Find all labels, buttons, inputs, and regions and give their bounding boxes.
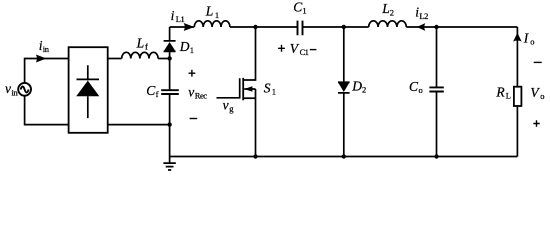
svg-text:v: v <box>223 98 229 113</box>
label vRec minus <box>190 118 198 120</box>
label Vo <box>530 85 544 101</box>
wire <box>25 59 69 125</box>
svg-text:I: I <box>523 30 530 45</box>
node Cf-bottom <box>167 122 171 126</box>
svg-text:f: f <box>156 89 159 99</box>
label C1 <box>293 0 306 16</box>
svg-text:in: in <box>43 44 50 54</box>
bottom rail wire <box>170 156 518 158</box>
label Vo plus <box>533 120 539 126</box>
label L1 <box>205 4 219 20</box>
label vin <box>5 81 18 97</box>
arrow iin <box>36 55 47 63</box>
capacitor Co <box>429 27 443 157</box>
label Cf <box>146 83 158 99</box>
svg-text:2: 2 <box>390 7 394 17</box>
right wire <box>516 27 518 157</box>
label S1 <box>264 81 276 97</box>
label RL <box>495 84 511 100</box>
svg-text:v: v <box>188 85 194 100</box>
svg-text:D: D <box>179 39 190 54</box>
resistor RL <box>514 87 522 106</box>
inductor L2 <box>369 21 407 27</box>
svg-text:2: 2 <box>362 85 366 95</box>
wire <box>108 125 170 157</box>
svg-text:v: v <box>5 81 11 96</box>
node Co-bottom <box>434 154 438 158</box>
svg-text:i: i <box>171 8 175 23</box>
diode D2 <box>338 27 350 157</box>
node Lf-D1-Cf <box>167 56 171 60</box>
label iin <box>39 38 50 54</box>
label Io <box>523 30 535 46</box>
label vRec plus <box>189 70 196 77</box>
diode D1 <box>164 27 176 58</box>
top rail wire <box>170 26 518 28</box>
label D2 <box>351 79 366 95</box>
svg-text:1: 1 <box>302 6 306 16</box>
svg-text:C1: C1 <box>300 47 309 57</box>
svg-text:R: R <box>495 84 505 99</box>
svg-text:L: L <box>506 90 511 100</box>
source Vin <box>18 83 31 96</box>
arrow iL1 <box>184 23 195 31</box>
capacitor Cf <box>161 58 179 124</box>
svg-text:o: o <box>530 36 534 46</box>
label VC1 minus <box>310 49 317 51</box>
label L2 <box>381 1 394 17</box>
svg-text:g: g <box>229 103 234 113</box>
svg-text:f: f <box>145 41 148 51</box>
label Vo minus <box>534 61 542 63</box>
label Co <box>409 79 423 95</box>
label VC1 plus <box>278 45 285 52</box>
svg-text:L2: L2 <box>419 11 428 21</box>
label iL2 <box>415 5 428 21</box>
svg-text:L1: L1 <box>176 14 185 24</box>
label VC1 <box>290 41 309 57</box>
svg-text:o: o <box>419 85 423 95</box>
bridge rectifier <box>69 47 108 133</box>
label D1 <box>179 39 194 55</box>
svg-text:L: L <box>205 4 214 19</box>
label iL1 <box>171 8 185 24</box>
svg-text:L: L <box>136 35 145 50</box>
node L2-Co <box>434 25 438 29</box>
wire <box>158 58 170 60</box>
arrow Io <box>513 33 522 42</box>
MOSFET S1 <box>217 27 256 157</box>
inductor L1 <box>194 21 230 27</box>
svg-text:L: L <box>381 1 390 16</box>
svg-text:Rec: Rec <box>195 91 207 101</box>
svg-text:V: V <box>530 85 540 100</box>
node L1-C1-S1 <box>253 25 257 29</box>
svg-text:1: 1 <box>272 87 276 97</box>
label vRec <box>188 85 207 101</box>
svg-text:V: V <box>290 41 300 56</box>
node C1-D2 <box>342 25 346 29</box>
wire <box>108 58 122 60</box>
capacitor C1 <box>298 21 303 36</box>
svg-text:o: o <box>540 91 544 101</box>
inductor Lf <box>122 52 158 58</box>
svg-text:1: 1 <box>215 10 219 20</box>
label Lf <box>136 35 148 51</box>
svg-text:S: S <box>264 81 271 96</box>
svg-text:C: C <box>409 79 419 94</box>
node S1-bottom <box>253 154 257 158</box>
svg-text:1: 1 <box>190 45 194 55</box>
node D2-bottom <box>342 154 346 158</box>
arrow iL2 <box>417 23 426 31</box>
label vg <box>223 98 235 114</box>
svg-text:D: D <box>351 79 362 94</box>
ground <box>163 157 175 171</box>
